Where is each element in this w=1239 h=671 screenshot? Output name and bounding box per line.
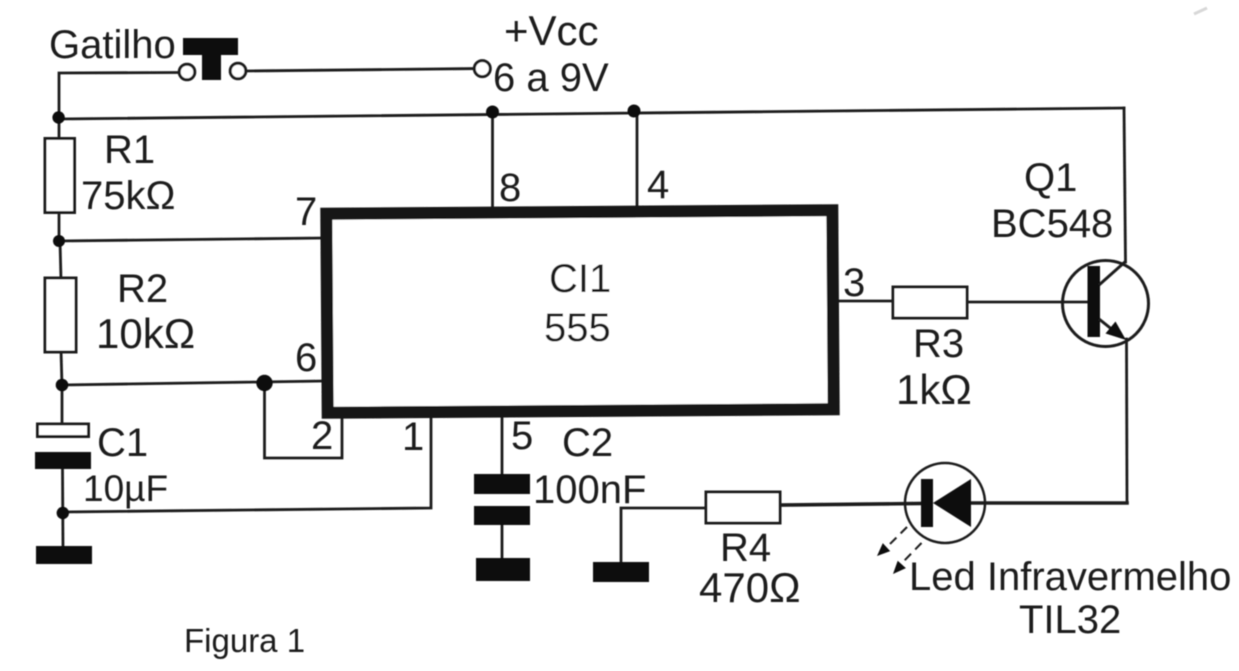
- resistor R3: [893, 287, 967, 318]
- LED emission arrow 2: [902, 543, 922, 563]
- resistor R2: [45, 278, 76, 352]
- ground (C2): [476, 558, 530, 581]
- wire node to C1: [61, 386, 64, 426]
- svg-text:BC548: BC548: [991, 202, 1113, 246]
- node dot R2/C1: [56, 379, 69, 392]
- svg-text:5: 5: [511, 414, 533, 458]
- wire R4 to LED: [780, 504, 922, 506]
- wire pin 6: [62, 381, 323, 385]
- pushbutton S1: [179, 38, 246, 80]
- wire emitter drop: [1125, 339, 1128, 503]
- resistor R1: [45, 139, 75, 213]
- wire R2 bottom to node: [61, 350, 62, 386]
- ground (R4): [593, 562, 649, 582]
- svg-text:C2: C2: [562, 421, 613, 465]
- svg-text:Figura 1: Figura 1: [184, 622, 305, 659]
- wire LED to emitter drop: [970, 501, 1127, 505]
- svg-text:Gatilho: Gatilho: [49, 23, 176, 67]
- wire R1 top: [58, 117, 61, 140]
- svg-text:CI1: CI1: [549, 257, 611, 301]
- ground (C1): [36, 546, 92, 564]
- wire pin 3 to R3: [837, 300, 893, 303]
- svg-text:10kΩ: 10kΩ: [96, 310, 195, 357]
- svg-text:TIL32: TIL32: [1019, 598, 1121, 642]
- node dot C1/pin1: [57, 507, 69, 519]
- wire collector drop from rail: [1124, 108, 1126, 262]
- svg-text:R1: R1: [104, 128, 155, 172]
- svg-text:R3: R3: [913, 322, 964, 366]
- wire pin 8: [491, 112, 494, 208]
- wire R1 bottom to node: [58, 214, 61, 243]
- LED emission arrow 1: [887, 527, 907, 547]
- node dot pin 8: [486, 106, 499, 119]
- transistor Q1: [1063, 261, 1149, 347]
- wire pin 5: [501, 415, 504, 476]
- faint scan mark top right: [1194, 8, 1207, 14]
- wire node to R2 top: [60, 241, 61, 280]
- wire R3 to Q1 base: [967, 301, 1089, 304]
- svg-text:2: 2: [311, 414, 333, 458]
- terminal +Vcc: [474, 61, 490, 77]
- svg-text:470Ω: 470Ω: [699, 564, 800, 611]
- capacitor C1: [35, 424, 91, 469]
- svg-text:1kΩ: 1kΩ: [896, 366, 972, 413]
- wire R4 ground stub: [621, 508, 708, 564]
- wire pin 4: [636, 110, 639, 208]
- wire switch left to corner: [59, 73, 179, 118]
- wire pin 1: [64, 415, 431, 512]
- svg-text:100nF: 100nF: [533, 468, 646, 512]
- node dot R1/R2: [53, 235, 65, 247]
- svg-text:555: 555: [544, 306, 611, 350]
- capacitor C2: [474, 474, 530, 525]
- svg-text:1: 1: [402, 415, 424, 459]
- svg-text:Led Infravermelho: Led Infravermelho: [909, 555, 1231, 599]
- svg-text:+Vcc: +Vcc: [504, 7, 599, 54]
- wire switch right to Vcc terminal: [246, 69, 474, 71]
- wire pin 7: [59, 238, 323, 241]
- resistor R4: [706, 492, 780, 523]
- wire top supply rail: [59, 108, 1124, 119]
- svg-text:75kΩ: 75kΩ: [81, 174, 175, 218]
- node dot left rail: [52, 111, 64, 123]
- node dot pin 4: [628, 105, 641, 118]
- svg-text:4: 4: [647, 163, 669, 207]
- svg-text:6 a 9V: 6 a 9V: [493, 56, 609, 100]
- svg-text:R2: R2: [117, 267, 168, 311]
- wire C1 to ground node: [61, 468, 64, 548]
- svg-text:Q1: Q1: [1024, 156, 1077, 200]
- wire C2 to ground: [501, 523, 504, 560]
- node dot pin 2: [256, 375, 272, 391]
- svg-text:7: 7: [295, 190, 317, 234]
- IC CI1 555: [326, 210, 833, 413]
- svg-text:8: 8: [499, 166, 521, 210]
- wire pin 2 hook: [265, 384, 343, 458]
- svg-text:C1: C1: [97, 421, 148, 465]
- svg-text:6: 6: [295, 336, 317, 380]
- svg-text:3: 3: [843, 261, 865, 305]
- svg-text:10µF: 10µF: [83, 468, 168, 509]
- LED D1 TIL32: [905, 463, 985, 543]
